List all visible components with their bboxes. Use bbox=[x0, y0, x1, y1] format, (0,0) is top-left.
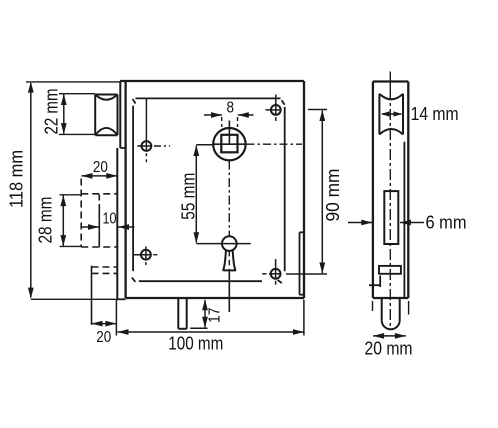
svg-text:100 mm: 100 mm bbox=[168, 334, 223, 354]
svg-text:8: 8 bbox=[227, 100, 235, 117]
svg-text:20: 20 bbox=[93, 159, 108, 176]
svg-text:90 mm: 90 mm bbox=[323, 169, 343, 222]
svg-text:17: 17 bbox=[207, 307, 224, 323]
svg-text:118 mm: 118 mm bbox=[7, 150, 27, 208]
svg-text:10: 10 bbox=[103, 210, 117, 227]
svg-text:14 mm: 14 mm bbox=[411, 104, 459, 124]
svg-text:55 mm: 55 mm bbox=[178, 173, 198, 220]
svg-text:22 mm: 22 mm bbox=[42, 89, 62, 135]
svg-text:20 mm: 20 mm bbox=[365, 339, 413, 359]
svg-text:20: 20 bbox=[96, 329, 111, 346]
svg-text:6 mm: 6 mm bbox=[426, 212, 467, 232]
svg-text:28 mm: 28 mm bbox=[36, 197, 56, 244]
